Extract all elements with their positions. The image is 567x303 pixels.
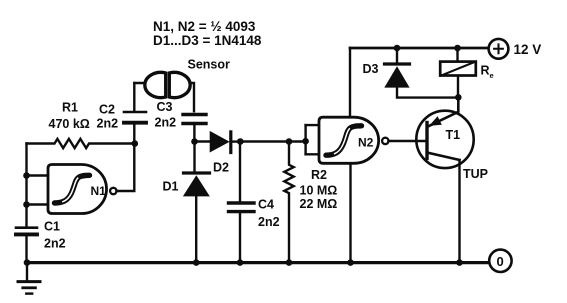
node N1 input a — [23, 172, 30, 179]
terminal +12V — [489, 39, 509, 59]
wire T1 collector — [458, 160, 460, 263]
svg-text:C1: C1 — [44, 220, 60, 234]
svg-text:D3: D3 — [363, 62, 379, 76]
sensor plates — [145, 72, 166, 97]
svg-text:2n2: 2n2 — [155, 116, 177, 130]
relay Re — [456, 48, 458, 62]
wire left input rail — [25, 144, 27, 228]
svg-text:N1: N1 — [91, 184, 107, 198]
resistor R1 — [27, 139, 135, 148]
svg-text:2n2: 2n2 — [44, 237, 66, 251]
wire N1 output — [117, 144, 135, 192]
node C1/ground — [24, 259, 31, 266]
node N2 input — [302, 138, 309, 145]
node R2 bottom — [286, 259, 293, 266]
wire sensor left lead — [134, 82, 152, 84]
node relay bottom / T1 emitter — [455, 94, 462, 101]
wire bottom rail — [27, 261, 489, 264]
svg-text:Sensor: Sensor — [188, 58, 231, 72]
node D1 bottom — [193, 259, 200, 266]
capacitor C2 — [133, 125, 135, 144]
node D3 top — [394, 45, 401, 52]
svg-text:R1: R1 — [62, 101, 78, 115]
svg-text:22 MΩ: 22 MΩ — [300, 197, 338, 211]
svg-text:12 V: 12 V — [514, 42, 542, 57]
svg-text:N1, N2 = ½ 4093: N1, N2 = ½ 4093 — [153, 19, 256, 34]
svg-text:470 kΩ: 470 kΩ — [49, 117, 90, 131]
svg-text:10 MΩ: 10 MΩ — [300, 183, 338, 197]
svg-text:2n2: 2n2 — [258, 215, 280, 229]
node C4 bottom — [237, 259, 244, 266]
wire sensor right lead — [183, 83, 194, 111]
capacitor C3 — [183, 113, 206, 116]
annotation text — [153, 19, 262, 48]
svg-text:C4: C4 — [258, 198, 274, 212]
node N1 input b — [23, 201, 30, 208]
wire signal line to N2 — [240, 140, 305, 142]
wire N2 inputs — [304, 125, 306, 154]
svg-text:D2: D2 — [213, 161, 229, 175]
node D2 cathode — [237, 138, 244, 145]
svg-text:2n2: 2n2 — [97, 116, 119, 130]
capacitor C4 — [239, 142, 241, 202]
svg-text:C3: C3 — [157, 100, 173, 114]
wire N2 supply top — [349, 48, 351, 117]
NAND gate N1 — [48, 165, 107, 214]
wire N2 supply bottom — [349, 163, 351, 263]
svg-text:R: R — [481, 64, 490, 78]
svg-text:C2: C2 — [99, 103, 115, 117]
svg-text:D1: D1 — [163, 180, 179, 194]
resistor R2 — [284, 142, 293, 264]
node T1 collector bottom — [456, 259, 463, 266]
svg-text:R2: R2 — [311, 168, 327, 182]
svg-text:e: e — [490, 71, 494, 80]
diode D2 — [195, 140, 210, 142]
node junction R1/C2/N1out — [132, 140, 139, 147]
wire N1 inputs — [27, 174, 49, 176]
node relay top — [454, 45, 461, 52]
svg-text:TUP: TUP — [463, 167, 488, 181]
diode D1 — [193, 142, 195, 172]
ground — [26, 263, 28, 281]
node C3/D1/D2 — [191, 138, 198, 145]
svg-text:0: 0 — [497, 254, 504, 269]
wire top rail — [350, 47, 489, 50]
svg-text:D1...D3 = 1N4148: D1...D3 = 1N4148 — [153, 33, 262, 48]
svg-text:T1: T1 — [446, 128, 461, 142]
node N2 supply bottom — [347, 259, 354, 266]
capacitor C1 — [16, 226, 37, 229]
terminal 0 — [489, 250, 511, 272]
svg-text:N2: N2 — [358, 135, 374, 149]
diode D3 — [396, 48, 398, 63]
NAND gate N2 — [319, 117, 379, 163]
node R2 top — [286, 138, 293, 145]
transistor T1 — [416, 111, 473, 168]
